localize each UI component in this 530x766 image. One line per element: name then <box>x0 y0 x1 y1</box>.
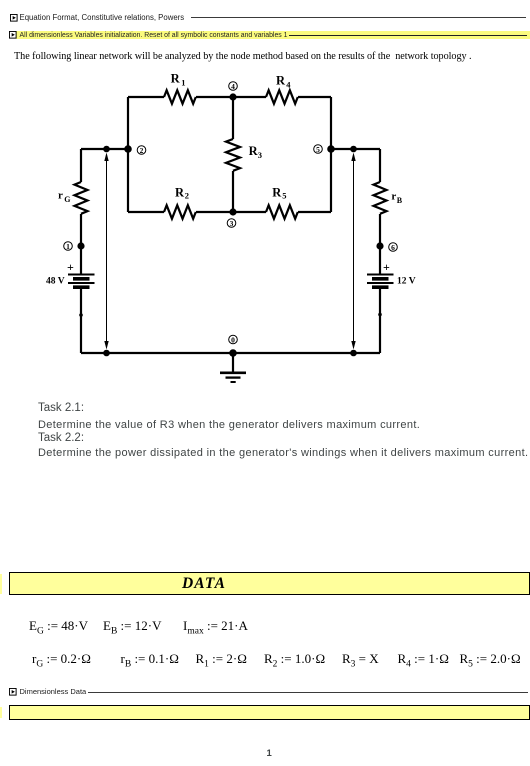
junction left arrow bottom <box>103 350 110 357</box>
svg-text:5: 5 <box>316 145 320 154</box>
svg-text:3: 3 <box>258 150 262 160</box>
wire right outer mid <box>379 214 381 274</box>
wire bottom-middle center <box>196 211 266 213</box>
wire bottom-middle left <box>128 211 164 213</box>
junction node4 <box>229 93 236 100</box>
junction left arrow top <box>103 146 110 153</box>
junction node2 <box>124 145 132 153</box>
DATA header bar <box>9 572 530 595</box>
battery EB 12V <box>367 260 416 287</box>
svg-text:B: B <box>397 196 403 205</box>
wire R3 upper <box>232 97 234 139</box>
node number 5 <box>314 145 323 154</box>
svg-text:+: + <box>67 260 74 274</box>
data row 2 <box>32 651 91 667</box>
data row 1 <box>29 618 88 634</box>
voltage arrow right <box>351 153 355 350</box>
svg-text:R: R <box>272 185 282 199</box>
dot below battery EG <box>79 313 83 317</box>
resistor rG <box>75 182 88 214</box>
resistor R1 <box>164 90 196 103</box>
svg-text:r: r <box>391 191 396 203</box>
resistor R4 <box>266 90 298 103</box>
svg-text:2: 2 <box>185 191 189 201</box>
node number 6 <box>389 243 398 252</box>
svg-text:4: 4 <box>286 79 291 89</box>
svg-text:0: 0 <box>231 335 235 344</box>
wire top right segment <box>298 96 331 98</box>
svg-text:48 V: 48 V <box>46 277 65 287</box>
node number 1 <box>64 242 73 251</box>
dot below battery EB <box>378 313 382 317</box>
label R4 <box>276 73 291 89</box>
wire left outer lower <box>80 288 82 353</box>
wire left outer mid <box>80 214 82 274</box>
node number 2 <box>137 146 146 155</box>
label R3 <box>249 144 262 160</box>
junction right arrow bottom <box>350 350 357 357</box>
label R1 <box>171 71 186 87</box>
wire top middle segment <box>196 96 266 98</box>
svg-text:3: 3 <box>230 219 234 228</box>
section bar 3: Dimensionless Data <box>9 688 17 696</box>
section bar 1: Equation Format <box>10 14 18 22</box>
resistor R2 <box>164 205 196 218</box>
svg-text:+: + <box>383 260 390 274</box>
label rG <box>58 190 70 204</box>
wire node5 stub <box>331 148 380 150</box>
wire right inner vertical <box>330 97 332 212</box>
svg-text:4: 4 <box>231 82 235 91</box>
wire R3 lower <box>232 171 234 212</box>
bottom yellow bar <box>9 705 530 720</box>
node number 0 <box>229 335 238 344</box>
node number 3 <box>227 219 236 228</box>
node number 4 <box>229 82 238 91</box>
svg-text:R: R <box>276 73 286 87</box>
resistor rB <box>374 182 387 214</box>
wire top left segment <box>128 96 164 98</box>
svg-text:R: R <box>175 185 185 199</box>
battery EG 48V <box>46 260 95 287</box>
svg-text:G: G <box>64 195 70 204</box>
svg-text:r: r <box>58 190 63 202</box>
junction node5 <box>327 145 335 153</box>
svg-text:2: 2 <box>140 146 144 155</box>
wire bottom <box>81 352 380 354</box>
label R5 <box>272 185 286 200</box>
svg-text:6: 6 <box>391 243 395 252</box>
resistor R5 <box>266 205 298 218</box>
task text <box>38 402 84 414</box>
wire left inner vertical <box>127 97 129 212</box>
svg-text:12 V: 12 V <box>397 277 416 287</box>
svg-text:5: 5 <box>282 191 286 201</box>
label R2 <box>175 185 189 200</box>
wire node2 stub <box>81 148 128 150</box>
wire right outer upper <box>379 149 381 182</box>
junction node0 <box>229 349 237 357</box>
label rB <box>391 191 402 206</box>
resistor R3 <box>226 139 240 171</box>
wire bottom-middle right <box>298 211 331 213</box>
section bar 2: yellow highlighted <box>16 31 530 39</box>
junction node1 <box>77 242 84 249</box>
junction node3 <box>229 208 236 215</box>
svg-text:1: 1 <box>66 242 70 251</box>
wire left outer upper <box>80 149 82 182</box>
voltage arrow left <box>104 153 108 350</box>
svg-text:1: 1 <box>181 78 185 88</box>
ground <box>220 353 246 382</box>
page number <box>267 748 272 759</box>
junction node6 <box>376 242 383 249</box>
paragraph <box>14 51 472 62</box>
wire right outer lower <box>379 288 381 353</box>
svg-text:R: R <box>171 71 181 85</box>
junction right arrow top <box>350 146 357 153</box>
